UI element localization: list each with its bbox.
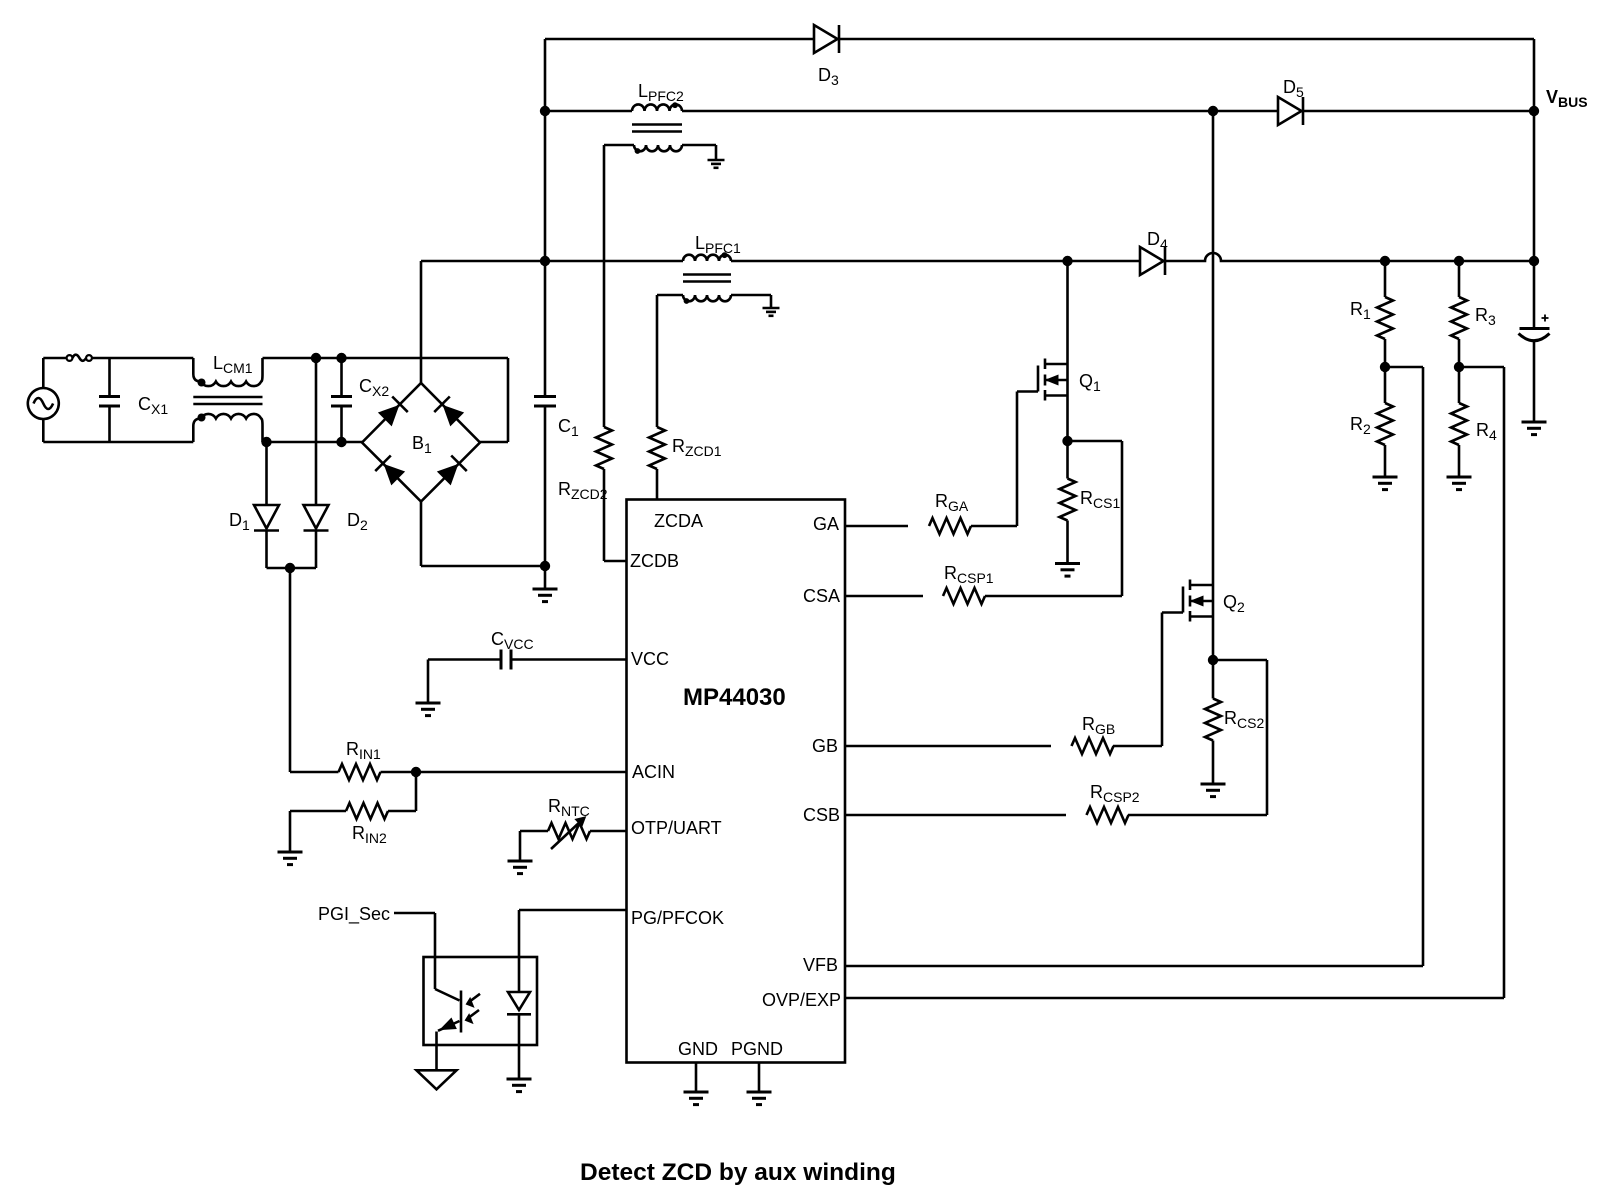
diode D1 — [254, 505, 279, 531]
label CX2 — [359, 376, 389, 399]
svg-text:VFB: VFB — [803, 955, 838, 975]
junction Q2 source / RCS2 / RCSP2 — [1208, 655, 1218, 665]
wire B1 positive output vertical — [420, 261, 423, 383]
ground PGND pin — [747, 1092, 772, 1105]
wire GND pin stem — [695, 1063, 698, 1093]
ground RCS2 — [1201, 784, 1226, 797]
diode D2 — [304, 505, 329, 531]
capacitor COUT (polarized bulk) — [1519, 315, 1550, 341]
label RIN2 — [352, 823, 387, 846]
wire Q1 source to RCS1 — [1066, 441, 1069, 479]
svg-text:PG/PFCOK: PG/PFCOK — [631, 908, 724, 928]
junction D5 branch / Q2 drain line — [1208, 106, 1218, 116]
pin label ACIN — [632, 762, 675, 782]
inductor LPFC2 secondary winding — [634, 145, 682, 151]
inductor LPFC1 primary winding — [683, 255, 731, 261]
polarity dot LPFC1 primary — [722, 252, 728, 258]
wire RZCD1 to ZCDA pin — [656, 469, 659, 500]
svg-text:ACIN: ACIN — [632, 762, 675, 782]
resistor R4 — [1451, 403, 1467, 445]
label PGI_Sec — [318, 904, 390, 925]
junction RIN1/RIN2/ACIN — [411, 767, 421, 777]
wire Q2 source to RCS2 — [1212, 660, 1215, 699]
ground opto LED — [507, 1079, 532, 1092]
svg-text:GND: GND — [678, 1039, 718, 1059]
label LPFC2 — [638, 81, 684, 104]
junction second rail / left bus — [540, 106, 550, 116]
wire CSA pin segment — [845, 595, 923, 598]
diode D3 — [814, 25, 839, 53]
wire D2 anode lead (crosses bottom wire) — [315, 358, 318, 505]
junction rail3 / left bus — [540, 256, 550, 266]
ground GND pin — [684, 1092, 709, 1105]
junction Q1 drain on rail3 — [1062, 256, 1072, 266]
resistor RCSP2 — [1087, 807, 1129, 823]
svg-text:Detect ZCD by aux winding: Detect ZCD by aux winding — [580, 1159, 896, 1186]
wire LPFC1 secondary left lead — [657, 294, 683, 297]
wire RNTC to ground — [520, 831, 548, 861]
pin label ZCDA — [654, 511, 703, 531]
capacitor CX1 — [99, 358, 120, 442]
junction R3 top on rail3 — [1454, 256, 1464, 266]
wire R1 top lead — [1384, 261, 1387, 297]
wire RGA to Q1 gate — [971, 392, 1017, 527]
inductor LPFC1 secondary winding — [683, 295, 731, 301]
diode D4 — [1140, 247, 1165, 275]
bridge diode B1 bottom-left — [375, 455, 404, 484]
label CX1 — [138, 394, 168, 417]
label B1 — [412, 433, 432, 456]
wire R3 top lead — [1458, 261, 1461, 297]
wire R3 to R4 junction — [1458, 339, 1461, 403]
wire input top to fuse — [43, 357, 66, 360]
wire opto LED cathode lead — [518, 1014, 521, 1079]
wire RCSP1 to Q1 source — [985, 441, 1122, 596]
ground RNTC — [508, 861, 533, 874]
wire R2 to ground — [1384, 445, 1387, 477]
wire D5 cathode to VBUS corner — [1303, 110, 1534, 113]
polarity dot LCM1 bottom — [198, 414, 206, 422]
common-mode choke LCM1 top winding — [193, 358, 262, 386]
resistor RZCD2 — [596, 427, 612, 469]
label D4 — [1147, 229, 1168, 252]
junction output cap top on rail3 — [1529, 256, 1539, 266]
junction D2 top — [311, 353, 321, 363]
wire RCSP2 to Q2 source — [1128, 660, 1267, 815]
wire LPFC2 secondary right lead — [682, 145, 716, 160]
wire PGND pin stem — [758, 1063, 761, 1093]
pin label PG/PFCOK — [631, 908, 724, 928]
label RCS1 — [1080, 488, 1120, 511]
pin label CSA — [803, 586, 840, 606]
svg-text:MP44030: MP44030 — [683, 684, 786, 711]
label RZCD2 — [558, 479, 608, 502]
wire opto emitter lead — [435, 1032, 438, 1071]
wire CSB pin segment — [845, 814, 1066, 817]
wire Q1 drain — [1066, 261, 1069, 441]
node VBUS junction — [1529, 106, 1539, 116]
resistor RGA — [929, 518, 971, 534]
wire VFB tap to VFB pin — [845, 367, 1423, 966]
wire RGB to Q2 gate — [1113, 613, 1162, 747]
label RCSP1 — [944, 563, 994, 586]
opto LED — [507, 992, 531, 1014]
pin label GB — [812, 736, 838, 756]
wire R4 to ground — [1458, 445, 1461, 477]
wire left bus vertical (top rail to C1) — [544, 39, 547, 261]
ground LPFC1 secondary — [763, 308, 780, 316]
label RNTC — [548, 796, 590, 819]
wire top rail right segment (D3 cathode to right corner) — [839, 39, 1534, 111]
label R4 — [1476, 420, 1497, 443]
label CVCC — [491, 629, 534, 652]
label RIN1 — [346, 739, 381, 762]
svg-text:CSA: CSA — [803, 586, 840, 606]
svg-text:GB: GB — [812, 736, 838, 756]
resistor RIN2 — [346, 803, 388, 819]
pin label OVP/EXP — [762, 990, 841, 1010]
junction R1 top on rail3 — [1380, 256, 1390, 266]
wire second rail to LPFC2 primary — [545, 110, 632, 113]
pin label VFB — [803, 955, 838, 975]
pin label OTP/UART — [631, 818, 722, 838]
svg-text:OTP/UART: OTP/UART — [631, 818, 722, 838]
resistor RZCD1 — [649, 427, 665, 469]
ground RCS1 — [1055, 564, 1080, 577]
label R3 — [1475, 305, 1496, 328]
pin label GND — [678, 1039, 718, 1059]
ground CVCC — [416, 703, 441, 716]
wire ac source bottom lead — [42, 419, 45, 442]
label VBUS — [1546, 87, 1588, 110]
svg-text:OVP/EXP: OVP/EXP — [762, 990, 841, 1010]
wire D1 anode lead — [265, 442, 268, 505]
wire D1 cathode to junction — [267, 531, 317, 569]
wire VCC pin to CVCC — [511, 658, 627, 661]
wire top rail left segment (node after C1 branch to D3 anode) — [545, 38, 814, 41]
label R1 — [1350, 299, 1371, 322]
label D5 — [1283, 77, 1304, 100]
wire RZCD2 to ZCDB pin — [604, 469, 627, 561]
core LPFC1 — [683, 275, 731, 282]
svg-text:GA: GA — [813, 514, 839, 534]
label D2 — [347, 510, 368, 533]
wire ZCDB net vertical (LPFC2 secondary to RZCD2) — [603, 145, 606, 427]
label R2 — [1350, 414, 1371, 437]
wire C1 ground stem — [544, 566, 547, 589]
label C1 — [558, 416, 579, 439]
junction D1 bottom wire — [261, 437, 271, 447]
wire Q2 drain — [1212, 111, 1215, 660]
wire RIN1 left lead — [290, 771, 339, 774]
polarity dot LPFC1 secondary — [684, 298, 690, 304]
polarity dot LCM1 top — [198, 379, 206, 387]
wire PG/PFCOK pin to opto LED — [519, 910, 627, 992]
caption — [580, 1159, 896, 1186]
wire GA pin segment — [845, 525, 908, 528]
label LCM1 — [213, 353, 253, 376]
svg-text:PGI_Sec: PGI_Sec — [318, 904, 390, 925]
label Q1 — [1079, 371, 1101, 394]
resistor RCSP1 — [943, 588, 985, 604]
resistor RCS2 — [1205, 699, 1221, 741]
transistor Q1 (MOSFET) — [1017, 359, 1068, 401]
wire input bottom from source to LCM1 — [43, 441, 193, 444]
wire LCM1 to bridge top side — [263, 357, 509, 360]
wire ACIN sense drop — [289, 568, 292, 772]
resistor RIN1 — [339, 764, 417, 780]
svg-text:ZCDB: ZCDB — [630, 551, 679, 571]
resistor R2 — [1377, 403, 1393, 445]
capacitor CVCC — [501, 650, 511, 670]
wire R1 to R2 junction — [1384, 339, 1387, 403]
wire ZCDA net vertical (LPFC1 secondary to RZCD1) — [656, 295, 659, 427]
bridge diode B1 top-left — [379, 396, 408, 425]
ground LPFC2 secondary — [708, 160, 725, 168]
inductor LPFC2 primary winding — [632, 104, 682, 111]
junction OVP divider tap — [1454, 362, 1464, 372]
wire GB pin segment — [845, 745, 1051, 748]
wire VBUS to output capacitor — [1533, 111, 1536, 327]
wire input top corner down to bridge right vertex — [480, 358, 508, 442]
ground RIN2 — [278, 852, 303, 865]
wire D2 cathode lead — [315, 531, 318, 569]
optocoupler U2 box — [424, 957, 538, 1045]
wire rail from B1 to LPFC1 — [421, 260, 683, 263]
svg-text:CSB: CSB — [803, 805, 840, 825]
ground opto emitter (chassis triangle) — [417, 1070, 457, 1089]
wire ac source top lead — [42, 358, 45, 388]
wire fuse to LCM1 — [92, 357, 193, 360]
wire RIN2 right lead to junction — [388, 772, 416, 811]
label RGB — [1082, 714, 1115, 737]
opto light arrow lower — [465, 1010, 479, 1023]
ground R4 — [1447, 477, 1472, 490]
label RZCD1 — [672, 436, 722, 459]
junction VFB divider tap — [1380, 362, 1390, 372]
wire LPFC2 secondary left lead — [604, 144, 634, 147]
fuse F1 — [67, 355, 92, 361]
junction Q1 source / RCS1 / RCSP1 — [1062, 436, 1072, 446]
common-mode choke LCM1 bottom winding — [193, 414, 262, 442]
wire B1 negative output — [421, 502, 545, 567]
wire LCM1 to bridge left vertex — [263, 441, 363, 444]
wire OTP/UART pin segment — [590, 830, 627, 833]
polarity dot LPFC2 secondary — [635, 148, 641, 154]
ac source V1 — [28, 388, 59, 419]
svg-text:PGND: PGND — [731, 1039, 783, 1059]
label Q2 — [1223, 592, 1245, 615]
junction CX2 bottom — [336, 437, 346, 447]
wire PGI_Sec to opto collector — [394, 913, 435, 989]
pin label CSB — [803, 805, 840, 825]
label RCS2 — [1224, 708, 1264, 731]
resistor RNTC (thermistor) — [548, 817, 590, 849]
wire RIN2 left lead to ground — [290, 811, 346, 852]
junction CX2 top — [336, 353, 346, 363]
ground R2 — [1373, 477, 1398, 490]
pin label PGND — [731, 1039, 783, 1059]
wire RCS2 to ground — [1212, 741, 1215, 785]
core LPFC2 — [632, 125, 682, 132]
resistor R1 — [1377, 297, 1393, 339]
capacitor C1 — [534, 261, 556, 566]
wire output capacitor to ground — [1533, 341, 1536, 422]
svg-text:ZCDA: ZCDA — [654, 511, 703, 531]
label D1 — [229, 510, 250, 533]
bridge diode B1 top-right — [434, 396, 463, 425]
opto light arrow upper — [466, 994, 480, 1007]
pin label VCC — [631, 649, 669, 669]
diode D5 — [1278, 97, 1303, 125]
wire RCS1 to ground — [1066, 521, 1069, 564]
label RCSP2 — [1090, 782, 1140, 805]
wire D4 cathode with hop over Q2 drain line — [1165, 253, 1534, 261]
capacitor CX2 — [331, 358, 352, 442]
core LCM1 — [193, 397, 262, 404]
pin label ZCDB — [630, 551, 679, 571]
resistor RGB — [1072, 738, 1114, 754]
junction D1/D2 to ACIN divider — [285, 563, 295, 573]
resistor RCS1 — [1060, 479, 1076, 521]
label D3 — [818, 65, 839, 88]
bridge diode B1 bottom-right — [438, 455, 467, 484]
polarity dot LPFC2 primary — [672, 102, 678, 108]
wire CVCC to ground — [428, 660, 501, 704]
ground COUT — [1522, 422, 1547, 435]
bridge B1 outline — [362, 383, 480, 502]
svg-text:VCC: VCC — [631, 649, 669, 669]
label MP44030 — [683, 684, 786, 711]
ground main input — [533, 589, 558, 602]
wire LPFC2 primary to D5 anode — [682, 110, 1278, 113]
junction bridge negative / C1 / ground — [540, 561, 550, 571]
transistor Q2 (MOSFET) — [1162, 580, 1213, 622]
IC U1 MP44030 outline — [627, 500, 846, 1063]
wire ACIN pin segment — [416, 771, 627, 774]
wire LPFC1 primary to D4 anode — [731, 260, 1140, 263]
wire OVP tap to OVP/EXP pin — [845, 367, 1504, 998]
wire LPFC1 secondary right lead — [731, 295, 771, 308]
pin label GA — [813, 514, 839, 534]
label LPFC1 — [695, 233, 741, 256]
opto phototransistor — [435, 989, 461, 1033]
resistor R3 — [1451, 297, 1467, 339]
label RGA — [935, 491, 969, 514]
